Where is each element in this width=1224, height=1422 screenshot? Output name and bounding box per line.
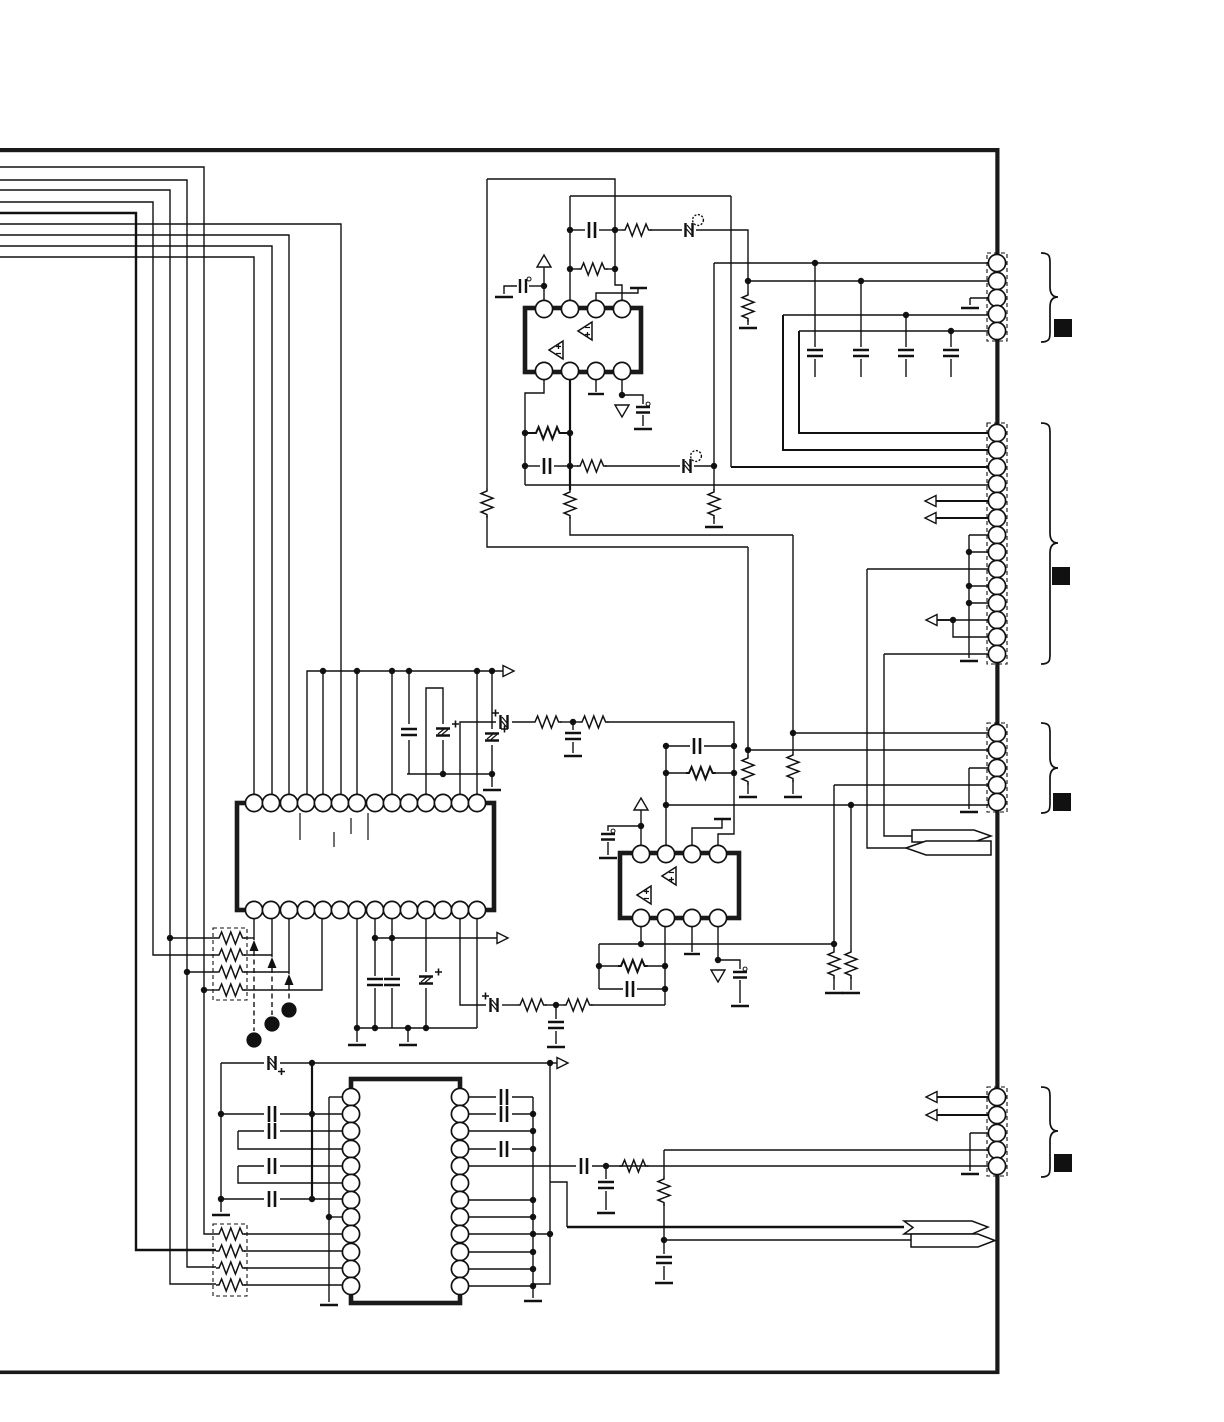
op-amp U3 bottom pin 2 bbox=[657, 909, 674, 926]
wire bus line 5 bbox=[0, 213, 216, 1250]
connector CN3 pin 2 bbox=[988, 741, 1005, 758]
IC U2 top pin 6 bbox=[331, 794, 348, 811]
wire bbox=[322, 671, 324, 795]
wire bbox=[570, 517, 793, 535]
wire bbox=[469, 1113, 496, 1115]
junction bbox=[167, 935, 173, 941]
IC U4 left pin 5 bbox=[342, 1157, 359, 1174]
junction bbox=[423, 1025, 429, 1031]
wire bbox=[713, 466, 715, 490]
wire to connector CN1 pin 2 bbox=[748, 280, 988, 282]
wire bbox=[570, 268, 578, 270]
wire bbox=[512, 1148, 533, 1150]
control line 1 bbox=[253, 919, 255, 940]
power supply V+ bbox=[634, 798, 648, 810]
capacitor C47 bbox=[501, 1141, 507, 1157]
junction bbox=[553, 1002, 559, 1008]
connector marker CN1 bbox=[1054, 319, 1072, 337]
wire to connector CN3 pin 1 bbox=[793, 732, 988, 734]
resistor R3 bbox=[481, 488, 493, 518]
wire bbox=[491, 774, 493, 787]
brace CN4 bbox=[1041, 1087, 1058, 1177]
wire bbox=[664, 927, 666, 1005]
junction bbox=[547, 1231, 553, 1237]
IC U3 body bbox=[620, 853, 739, 918]
op-amp U3 top pin 1 bbox=[632, 845, 649, 862]
wire bbox=[491, 671, 493, 729]
wire to connector CN3 pin 4 bbox=[834, 784, 988, 786]
wire bbox=[204, 989, 216, 991]
wire to flag bbox=[867, 569, 906, 848]
wire bbox=[391, 988, 393, 1028]
IC U2 top pin 8 bbox=[366, 794, 383, 811]
junction bbox=[745, 278, 751, 284]
wire bbox=[469, 1251, 533, 1253]
wire bbox=[469, 1165, 576, 1167]
IC U2 bottom pin 7 bbox=[348, 901, 365, 918]
IC U2 top pin 4 bbox=[297, 794, 314, 811]
wire bbox=[469, 1130, 533, 1132]
wire bbox=[622, 395, 643, 404]
capacitor C26 bbox=[384, 979, 400, 985]
ground bbox=[961, 1173, 979, 1176]
IC U2 bottom pin 2 bbox=[262, 901, 279, 918]
wire bbox=[408, 740, 410, 774]
resistor R31 bbox=[618, 960, 648, 972]
connector CN4 pin 5 bbox=[988, 1157, 1005, 1174]
connector CN1 outline bbox=[987, 253, 1007, 341]
wire bbox=[747, 547, 749, 749]
wire bbox=[244, 954, 272, 956]
junction bbox=[567, 463, 573, 469]
op-amp U3 bottom pin 4 bbox=[709, 909, 726, 926]
wire bbox=[621, 380, 623, 395]
electrolytic capacitor C21 bbox=[436, 721, 459, 736]
IC U2 bottom pin 1 bbox=[245, 901, 262, 918]
wire bbox=[718, 746, 734, 845]
wire bbox=[469, 1096, 496, 1098]
IC U4 left pin 9 bbox=[342, 1225, 359, 1242]
electrolytic capacitor C4 bbox=[636, 407, 650, 413]
junction bbox=[489, 771, 495, 777]
junction bbox=[530, 1266, 536, 1272]
resistor RA2-2 bbox=[216, 1245, 246, 1257]
IC U4 right pin 12 bbox=[451, 1277, 468, 1294]
wire bbox=[280, 1198, 342, 1200]
wire bbox=[374, 988, 376, 1028]
electrolytic capacitor C40 bbox=[269, 1056, 286, 1075]
op-amp U1 top pin 2 bbox=[561, 300, 578, 317]
junction bbox=[405, 1025, 411, 1031]
op-amp U1 bottom pin 2 bbox=[561, 362, 578, 379]
capacitor C20 bbox=[401, 729, 417, 735]
resistor RA1-4 bbox=[216, 984, 246, 996]
wire bbox=[469, 1216, 533, 1218]
op-amp U1 top pin 3 bbox=[587, 300, 604, 317]
wire to connector CN4 pin 5 bbox=[592, 1165, 988, 1167]
wire bbox=[512, 1096, 533, 1098]
wire bbox=[599, 965, 618, 967]
resistor R32 bbox=[517, 999, 547, 1011]
wire to connector CN3 pin 5 bbox=[666, 804, 988, 806]
open terminal mark bbox=[714, 818, 731, 820]
wire ground bus bbox=[407, 773, 492, 775]
wire bbox=[850, 977, 852, 990]
wire bbox=[691, 927, 693, 952]
wire bbox=[502, 1004, 517, 1006]
junction bbox=[372, 935, 378, 941]
off-page flag output bbox=[912, 830, 991, 842]
wire bbox=[525, 380, 544, 485]
resistor network outline RA1 bbox=[213, 928, 247, 1000]
wire bbox=[615, 229, 622, 231]
wire bbox=[747, 750, 749, 755]
junction bbox=[948, 328, 954, 334]
wire bbox=[476, 671, 478, 795]
junction bbox=[201, 987, 207, 993]
junction bbox=[389, 935, 395, 941]
off-page flag output 3 bbox=[911, 1234, 995, 1247]
IC U4 right pin 3 bbox=[451, 1122, 468, 1139]
wire bbox=[220, 1063, 222, 1199]
wire bbox=[391, 671, 393, 795]
wire bbox=[833, 977, 835, 990]
junction bbox=[745, 747, 751, 753]
capacitor C24 bbox=[565, 733, 581, 739]
wire bbox=[556, 1004, 563, 1006]
negative supply bbox=[615, 405, 629, 417]
junction bbox=[530, 1214, 536, 1220]
wire bbox=[591, 1004, 665, 1006]
resistor RA2-4 bbox=[216, 1279, 246, 1291]
IC U4 right pin 6 bbox=[451, 1174, 468, 1191]
wire cap bus U4 bbox=[532, 1097, 534, 1298]
wire bbox=[968, 768, 970, 809]
ground bbox=[212, 1214, 230, 1217]
wire bbox=[238, 1166, 342, 1183]
wire output bus bbox=[375, 937, 496, 939]
wire bbox=[573, 721, 579, 723]
wire bbox=[560, 721, 573, 723]
junction bbox=[354, 1025, 360, 1031]
connector CN2 pin 13 bbox=[988, 628, 1005, 645]
wire bbox=[747, 281, 749, 292]
wire bbox=[792, 780, 794, 794]
capacitor C31 bbox=[694, 738, 700, 754]
wire bbox=[569, 380, 571, 490]
wire bbox=[550, 1182, 567, 1227]
wire to connector CN1 pin 4 bbox=[783, 314, 988, 316]
IC U4 left pin 6 bbox=[342, 1174, 359, 1191]
wire bbox=[486, 179, 488, 488]
connector CN2 pin 4 bbox=[988, 475, 1005, 492]
capacitor C7 bbox=[898, 350, 914, 356]
wire bbox=[244, 937, 254, 939]
connector CN2 pin 9 bbox=[988, 560, 1005, 577]
wire bbox=[187, 971, 216, 973]
IC U2 internal marks bbox=[300, 813, 368, 847]
IC U4 right pin 9 bbox=[451, 1225, 468, 1242]
wire to connector CN2 pin 3 bbox=[731, 466, 988, 468]
capacitor C2 bbox=[589, 222, 595, 238]
electrolytic capacitor C34 bbox=[482, 993, 498, 1013]
wire bbox=[792, 535, 794, 732]
ground bbox=[348, 1044, 366, 1047]
op-amp U1 top pin 1 bbox=[535, 300, 552, 317]
op-amp U3a bbox=[662, 867, 676, 885]
wire bbox=[696, 230, 748, 281]
connector CN3 outline bbox=[987, 723, 1007, 812]
connector CN2 pin 11 bbox=[988, 594, 1005, 611]
IC U2 bottom pin 13 bbox=[451, 901, 468, 918]
resistor R5 bbox=[533, 427, 563, 439]
connector CN2 outline bbox=[987, 423, 1007, 664]
wire bbox=[512, 721, 532, 723]
op-amp U1a bbox=[578, 322, 592, 340]
IC U2 bottom pin 3 bbox=[280, 901, 297, 918]
wire bbox=[666, 745, 690, 747]
IC U4 right pin 8 bbox=[451, 1208, 468, 1225]
capacitor C25 bbox=[367, 979, 383, 985]
junction bbox=[966, 549, 972, 555]
connector CN2 pin 5 bbox=[988, 492, 1005, 509]
wire bbox=[646, 965, 665, 967]
wire bbox=[329, 1096, 342, 1098]
wire bbox=[221, 1062, 264, 1064]
wire bbox=[356, 671, 358, 795]
wire bbox=[469, 1268, 533, 1270]
control line 3 bbox=[288, 919, 290, 974]
junction bbox=[489, 668, 495, 674]
wire bbox=[238, 1130, 264, 1132]
IC U2 bottom pin 11 bbox=[417, 901, 434, 918]
IC U4 left pin 11 bbox=[342, 1260, 359, 1277]
resistor R34 bbox=[563, 999, 593, 1011]
resistor RA1-1 bbox=[216, 932, 246, 944]
junction bbox=[903, 312, 909, 318]
wire bbox=[170, 937, 216, 939]
junction bbox=[966, 583, 972, 589]
wire bbox=[599, 229, 615, 231]
frame bottom border bbox=[0, 1371, 1000, 1375]
junction bbox=[731, 743, 737, 749]
wire bbox=[570, 229, 585, 231]
capacitor C5 bbox=[807, 350, 823, 356]
IC U4 right pin 11 bbox=[451, 1260, 468, 1277]
junction bbox=[354, 668, 360, 674]
junction bbox=[831, 941, 837, 947]
junction bbox=[406, 668, 412, 674]
IC U2 top pin 11 bbox=[417, 794, 434, 811]
IC U4 left pin 8 bbox=[342, 1208, 359, 1225]
wire bbox=[280, 1062, 548, 1064]
IC U4 left pin 2 bbox=[342, 1105, 359, 1122]
wire bus line 4 bbox=[0, 202, 216, 955]
IC U4 right pin 10 bbox=[451, 1243, 468, 1260]
capacitor C42 bbox=[269, 1123, 275, 1139]
wire bbox=[747, 320, 749, 325]
junction bbox=[858, 278, 864, 284]
wire connector CN4 pin 3 stub bbox=[970, 1132, 988, 1134]
op-amp U1 bottom pin 4 bbox=[613, 362, 630, 379]
electrolytic capacitor C23 bbox=[492, 710, 508, 730]
wire ground bus 2 bbox=[357, 1027, 477, 1029]
IC U2 bottom pin 14 bbox=[468, 901, 485, 918]
capacitor C48 bbox=[581, 1158, 587, 1174]
wire CN2 pin 13 bbox=[953, 620, 988, 637]
junction bbox=[522, 463, 528, 469]
wire connector CN2 pin 14 bbox=[884, 653, 988, 655]
connector CN3 pin 4 bbox=[988, 776, 1005, 793]
wire to connector CN2 pin 1 bbox=[799, 331, 988, 433]
junction bbox=[848, 802, 854, 808]
connector CN2 pin 2 bbox=[988, 441, 1005, 458]
wire bbox=[525, 465, 540, 467]
wire bbox=[244, 1250, 342, 1252]
wire bbox=[570, 465, 578, 467]
wire bbox=[545, 1004, 556, 1006]
wire bbox=[713, 263, 715, 466]
ground bbox=[731, 1005, 749, 1008]
capacitor C41 bbox=[269, 1106, 275, 1122]
ground bbox=[483, 789, 501, 792]
junction bbox=[184, 969, 190, 975]
ground bbox=[739, 796, 757, 799]
wire bbox=[529, 285, 544, 287]
ground bbox=[597, 1212, 615, 1215]
ground bbox=[524, 1300, 542, 1303]
wire bbox=[692, 819, 722, 845]
wire bbox=[460, 722, 496, 795]
IC U2 bottom pin 4 bbox=[297, 901, 314, 918]
junction bbox=[663, 770, 669, 776]
junction bbox=[372, 1025, 378, 1031]
op-amp U1 bottom pin 1 bbox=[535, 362, 552, 379]
wire bbox=[460, 919, 486, 1005]
wire bbox=[244, 971, 289, 973]
IC U2 top pin 14 bbox=[468, 794, 485, 811]
junction bbox=[612, 266, 618, 272]
wire feedback loop B bbox=[570, 195, 731, 197]
wire to connector CN4 pin 4 bbox=[664, 1149, 988, 1151]
capacitor C8 bbox=[943, 350, 959, 356]
wire bbox=[637, 988, 665, 990]
op-amp U3b bbox=[637, 886, 651, 904]
IC U1 body bbox=[525, 308, 641, 372]
wire bus line 7 bbox=[0, 235, 289, 795]
wire to flag bbox=[884, 654, 912, 836]
wire bbox=[280, 1113, 342, 1115]
wire bus line 2 bbox=[0, 180, 216, 1267]
electrolytic capacitor C22 bbox=[485, 726, 508, 741]
signal arrow into CN2 pin 12 bbox=[926, 615, 953, 626]
capacitor C45 bbox=[501, 1089, 507, 1105]
wire bbox=[244, 1284, 342, 1286]
resistor R4 bbox=[742, 292, 754, 322]
IC U2 body bbox=[237, 803, 494, 910]
wire to connector CN1 pin 5 bbox=[799, 330, 988, 332]
junction bbox=[522, 430, 528, 436]
capacitor C46 bbox=[501, 1106, 507, 1122]
wire bbox=[814, 359, 816, 377]
connector CN1 pin 5 bbox=[988, 322, 1005, 339]
wire CN2 pin 10 stub bbox=[969, 585, 988, 587]
power supply V+ bbox=[537, 255, 551, 267]
wire bbox=[969, 1133, 971, 1171]
junction bbox=[638, 823, 644, 829]
junction bbox=[309, 1196, 315, 1202]
off-page flag output 2 bbox=[904, 1221, 988, 1234]
op-amp U3 top pin 4 bbox=[709, 845, 726, 862]
wire bbox=[220, 1199, 222, 1212]
resistor R37 bbox=[742, 755, 754, 785]
junction bbox=[326, 1214, 332, 1220]
resistor R1 bbox=[622, 224, 652, 236]
IC U4 left pin 10 bbox=[342, 1243, 359, 1260]
resistor R21 bbox=[579, 716, 609, 728]
connector CN1 pin 1 bbox=[988, 254, 1005, 271]
IC U2 bottom pin 12 bbox=[434, 901, 451, 918]
connector CN4 pin 4 bbox=[988, 1141, 1005, 1158]
junction bbox=[612, 227, 618, 233]
wire to connector CN1 pin 1 bbox=[714, 262, 988, 264]
wire bbox=[356, 919, 358, 1028]
wire bbox=[238, 1131, 342, 1149]
IC U2 top pin 10 bbox=[400, 794, 417, 811]
ground bbox=[564, 755, 582, 758]
wire bus line 6 bbox=[0, 224, 341, 795]
junction bbox=[662, 963, 668, 969]
connector CN2 pin 1 bbox=[988, 424, 1005, 441]
resistor RA2-3 bbox=[216, 1262, 246, 1274]
black terminal 1 bbox=[246, 1032, 261, 1047]
wire bbox=[730, 196, 732, 467]
wire ground bus CN2 bbox=[968, 535, 970, 658]
wire bbox=[425, 988, 427, 1028]
frame right border bbox=[995, 148, 999, 1373]
wire bbox=[555, 1031, 557, 1044]
capacitor C6 bbox=[853, 350, 869, 356]
wire bbox=[244, 1267, 342, 1269]
connector CN2 pin 3 bbox=[988, 458, 1005, 475]
connector CN3 pin 1 bbox=[988, 724, 1005, 741]
junction bbox=[638, 941, 644, 947]
wire bbox=[487, 516, 748, 547]
junction bbox=[950, 617, 956, 623]
arrow head bbox=[250, 940, 259, 951]
connector marker CN4 bbox=[1054, 1154, 1072, 1172]
ground bbox=[961, 307, 979, 310]
IC U4 right pin 5 bbox=[451, 1157, 468, 1174]
wire audio out bbox=[567, 1226, 904, 1228]
wire bbox=[533, 1063, 550, 1284]
wire bbox=[238, 1165, 264, 1167]
wire bbox=[663, 1240, 665, 1254]
resistor R41 bbox=[658, 1176, 670, 1206]
arrow head bbox=[285, 974, 294, 985]
resistor R36 bbox=[787, 752, 799, 782]
wire connector CN1 pin 3 stub bbox=[970, 297, 988, 299]
IC U2 bottom pin 10 bbox=[400, 901, 417, 918]
junction bbox=[663, 743, 669, 749]
wire bbox=[860, 359, 862, 377]
wire bbox=[860, 281, 862, 347]
connector CN1 pin 4 bbox=[988, 305, 1005, 322]
wire bus line 1 bbox=[0, 167, 216, 1234]
wire bbox=[391, 919, 393, 976]
wire bbox=[814, 263, 816, 347]
ground bbox=[599, 857, 617, 860]
